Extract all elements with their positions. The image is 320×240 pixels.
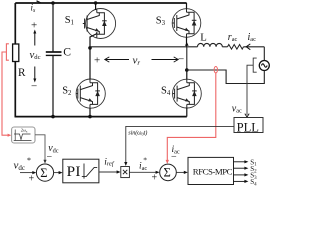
svg-text:+: + [94, 55, 100, 67]
wire filter to sum1 [35, 135, 45, 162]
notch filter block [12, 127, 35, 143]
v_ac sense bracket [253, 58, 257, 72]
svg-text:PI: PI [67, 163, 81, 180]
summing junction 1 [36, 164, 53, 181]
wire inverter output (phase A) [90, 46, 198, 48]
svg-text:RFCS-MPC: RFCS-MPC [193, 166, 233, 176]
node S2 bottom bus [88, 115, 92, 119]
wire PI to multiplier [99, 171, 119, 173]
PLL block [234, 118, 263, 133]
PI controller block [63, 159, 99, 183]
grid AC source [259, 61, 269, 71]
svg-text:−: − [31, 81, 37, 93]
inductor L [198, 43, 223, 46]
svg-text:sin(ω0t): sin(ω0t) [128, 129, 147, 136]
red v_dc sense bracket at R [2, 44, 9, 135]
svg-text:PLL: PLL [237, 120, 259, 134]
svg-text:+: + [152, 173, 158, 184]
arrow down [34, 67, 36, 81]
svg-text:L: L [200, 32, 207, 44]
capacitor C [52, 3, 54, 52]
current arrow on top bus [37, 1, 42, 3]
wire v_ac tap to PLL [247, 65, 253, 115]
IGBT S3 [172, 9, 201, 38]
wire grid return [187, 70, 264, 84]
multiplier block [121, 167, 130, 178]
wire v_dc* into sum1 [20, 172, 35, 174]
wire down to grid source [263, 47, 265, 61]
svg-text:Σ: Σ [164, 166, 171, 180]
wire left DC rail lower [14, 62, 16, 118]
wire sum1 to PI [54, 172, 61, 174]
svg-text:−: − [171, 152, 177, 163]
node S1 top [94, 1, 97, 4]
wire bottom DC bus [15, 116, 187, 118]
wire multiplier to sum2 [129, 171, 157, 173]
wire right leg between nodes [186, 47, 188, 70]
node top bus / C [51, 1, 55, 5]
node right leg / return wire [185, 68, 189, 72]
arrow up [34, 32, 36, 46]
IGBT S1 [86, 9, 116, 39]
svg-text:C: C [63, 45, 71, 58]
node left leg midpoint [88, 46, 92, 50]
current arrow up on right leg [185, 42, 189, 46]
IGBT S4 [173, 79, 202, 108]
IGBT S2 [76, 79, 105, 108]
resistor R [13, 44, 19, 62]
red arrow into filter block [8, 134, 12, 137]
svg-text:+: + [31, 20, 37, 32]
svg-text:2ωs: 2ωs [21, 128, 28, 134]
wire top DC bus [15, 2, 186, 4]
svg-text:+: + [29, 174, 35, 185]
wire L to r_ac [222, 46, 227, 48]
svg-text:−: − [47, 152, 53, 163]
wire r_ac to corner [244, 46, 265, 48]
resistor r_ac [228, 45, 244, 50]
summing junction 2 [160, 164, 177, 181]
wire left DC rail upper [14, 3, 16, 44]
svg-text:R: R [18, 67, 26, 79]
current arrow i_ac pointing left [246, 44, 250, 50]
red i_ac sensor tap [214, 67, 217, 73]
wire PLL sin output [126, 126, 234, 164]
gate signal outputs [234, 162, 246, 182]
svg-text:−: − [178, 54, 184, 66]
red wire i_ac measurement [167, 73, 216, 163]
svg-text:Σ: Σ [40, 166, 47, 180]
RFCS-MPC block [188, 157, 234, 184]
wire sum2 to RFCS-MPC [176, 171, 186, 173]
node bottom bus / C [51, 115, 55, 119]
